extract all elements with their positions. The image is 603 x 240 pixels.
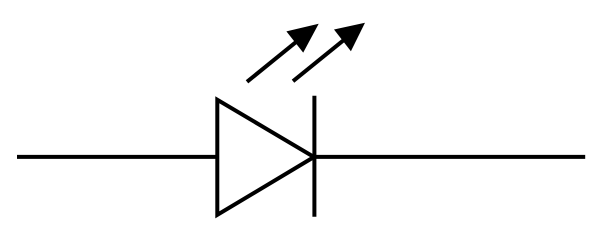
light-emission arrow 1 head — [286, 24, 318, 53]
light-emission arrow 2 head — [334, 23, 365, 51]
light-emission arrow 2 shaft — [293, 36, 349, 81]
wire (right cathode lead) — [312, 155, 585, 159]
wire (left anode lead) — [17, 155, 219, 159]
LED D1 triangle (anode) — [217, 100, 314, 215]
light-emission arrow 1 shaft — [247, 37, 302, 82]
LED D1 cathode bar — [312, 96, 316, 217]
